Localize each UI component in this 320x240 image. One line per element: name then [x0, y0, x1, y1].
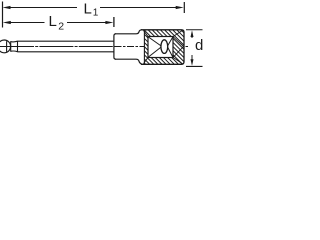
dimension d arrow down [191, 59, 194, 66]
ball flat chord [6, 41, 8, 52]
neck top edge [11, 40, 18, 43]
collar bottom edge [115, 59, 142, 64]
centerline shaft segment [0, 46, 113, 48]
dimension L1 line left segment [8, 7, 77, 9]
svg-text:1: 1 [93, 8, 99, 19]
neck-shaft junction [17, 41, 19, 52]
svg-text:2: 2 [58, 20, 64, 32]
drive square window [148, 37, 173, 58]
dimension L1 extension tick left [2, 2, 4, 28]
socket body hatched section [144, 30, 184, 65]
dimension L1 extension tick right [183, 2, 185, 13]
dimension d arrow up [191, 30, 194, 37]
ball tip [0, 40, 11, 53]
svg-text:L: L [49, 13, 57, 30]
collar left face [114, 34, 116, 59]
section cut line [143, 30, 145, 65]
svg-text:d: d [195, 37, 203, 54]
svg-text:L: L [84, 0, 92, 17]
socket body outline [141, 30, 184, 65]
ball-neck junction [10, 41, 12, 52]
collar top edge [115, 30, 142, 34]
corner chamfer lines [144, 31, 149, 37]
dimension L2 arrow right [105, 21, 113, 24]
dimension d top extension line [186, 29, 203, 31]
chamfer cone right [173, 37, 183, 47]
drive hole ellipse [161, 40, 168, 54]
neck bottom edge [11, 50, 18, 53]
dimension L2 line left segment [8, 22, 45, 24]
dimension L2 line right segment [67, 22, 108, 24]
dimension L2 extension tick right [113, 17, 115, 27]
shaft bottom edge [18, 51, 114, 53]
dimension L1 arrow right [176, 6, 184, 9]
dimension L1 line right segment [100, 7, 178, 9]
dimension d bottom extension line [186, 65, 203, 67]
centerline body segment [115, 46, 189, 48]
dimension L1 arrow left [3, 6, 11, 9]
shaft top edge [18, 40, 114, 42]
drive window diagonals [149, 37, 161, 46]
dimension L2 arrow left [3, 21, 11, 24]
